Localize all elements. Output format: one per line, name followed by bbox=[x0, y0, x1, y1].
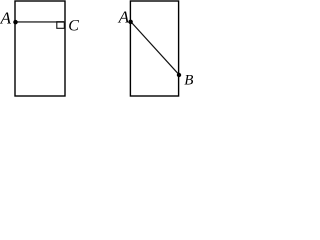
svg-text:C: C bbox=[68, 17, 79, 34]
svg-text:A: A bbox=[0, 9, 12, 28]
svg-text:B: B bbox=[184, 72, 193, 88]
svg-text:A: A bbox=[118, 7, 130, 26]
